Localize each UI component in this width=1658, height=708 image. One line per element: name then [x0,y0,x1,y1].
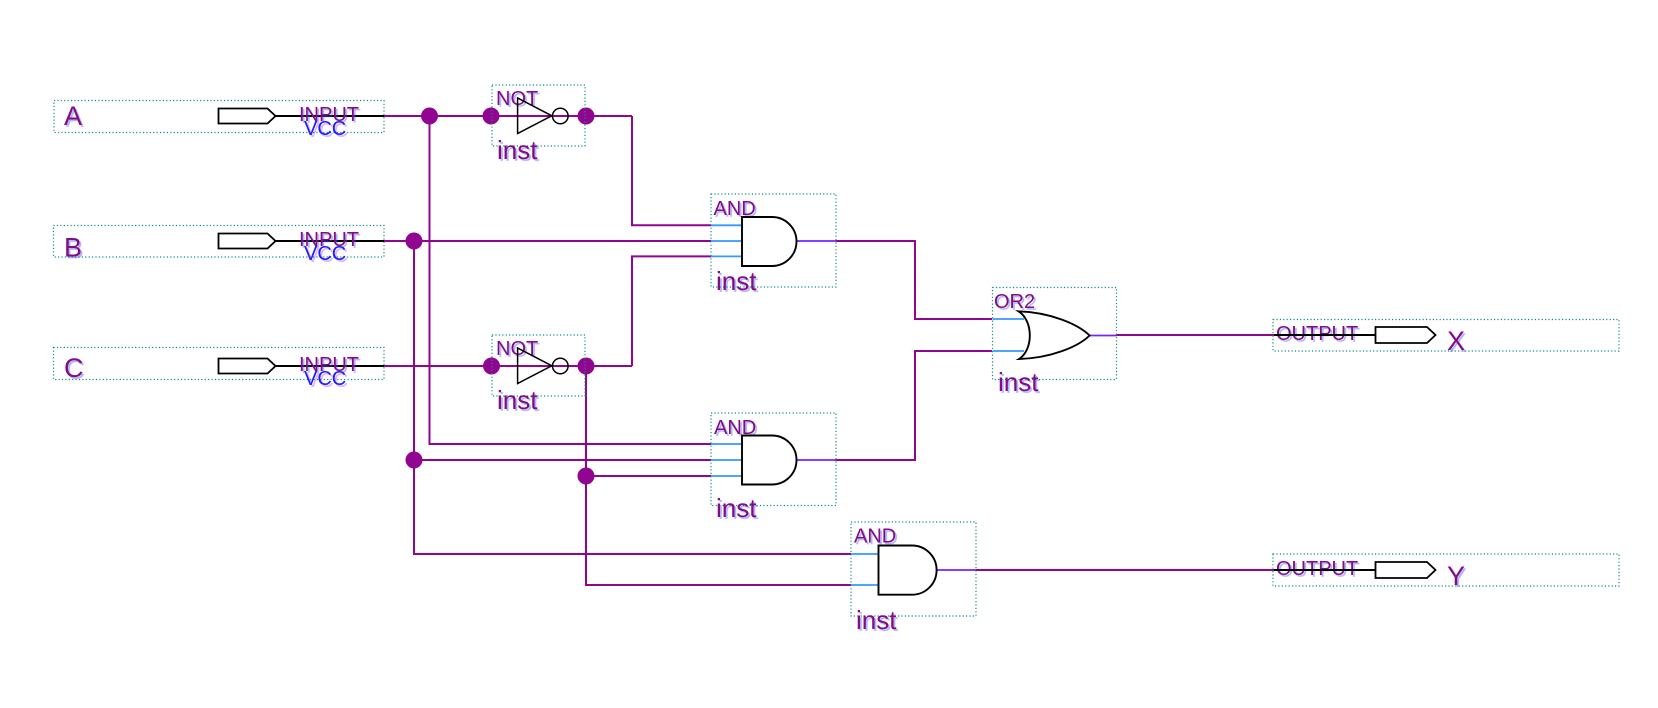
junction dot NOT1 input [483,108,500,125]
junction dot B branch 2 [406,452,423,469]
junction dot B branch [406,233,423,250]
NOT gate U1 triangle [518,98,552,134]
AND gate U5 output stub [935,569,976,571]
svg-text:A: A [64,101,82,131]
wire A row (pin A to NOT1 and bend) [384,115,632,117]
svg-text:inst: inst [716,493,757,523]
svg-text:Y: Y [1447,561,1465,591]
AND gate U3 input stub 1 [711,224,743,226]
input pin A selection box [54,101,384,133]
input pin A symbol [219,109,276,124]
wire B branch vertical [414,241,851,554]
NOT gate U1 bubble [553,108,569,124]
junction dot NOT2 output [578,358,595,375]
svg-text:inst: inst [856,605,897,635]
wire NOT1 output vertical drop [632,116,711,225]
input pin C symbol [219,359,276,374]
svg-text:B: B [64,233,82,263]
svg-text:VCC: VCC [304,368,346,390]
svg-text:inst: inst [716,266,757,296]
wire B row (pin B to AND1 input 2) [384,240,711,242]
output pin X symbol [1376,327,1436,343]
AND gate U3 input stub 3 [711,255,743,257]
AND gate U5 body [879,546,937,595]
OR gate U6 input stub 1 [993,318,1025,320]
AND gate U3 selection box [711,194,836,287]
junction dot NOT2 input [483,358,500,375]
output pin X selection box [1273,320,1619,352]
wire (B pin black segment) [276,240,385,242]
wire AND3 output to Y pin [976,569,1274,571]
AND gate U4 body [742,436,797,485]
NOT gate U2 triangle [518,348,552,384]
svg-text:C: C [64,353,84,383]
svg-text:VCC: VCC [304,118,346,140]
junction dot NOT1 output [578,108,595,125]
input pin B selection box [54,226,385,258]
AND gate U4 input stub 3 [711,475,743,477]
wire AND2 output to OR input 2 [836,351,992,460]
svg-text:AND: AND [854,526,896,548]
AND gate U5 selection box [851,522,976,616]
wire AND1 output to OR input 1 [836,241,992,319]
wire NOT2 output rise to AND1 input 3 [632,256,711,366]
AND gate U5 input stub 2 [851,584,880,586]
svg-text:X: X [1447,326,1465,356]
wire (X pin black segment) [1274,334,1376,336]
AND gate U3 output stub [795,240,836,242]
svg-text:inst: inst [998,367,1039,397]
wire (Y pin black segment) [1274,569,1376,571]
junction dot NOT2 branch 2 [578,468,595,485]
output pin Y selection box [1273,554,1619,586]
NOT gate U2 bubble [553,358,569,374]
NOT gate U1 selection box [492,85,585,146]
input pin B symbol [219,234,276,249]
wire C row (pin C to NOT2 and bend) [384,365,632,367]
output pin Y symbol [1376,562,1436,578]
junction dot A branch [421,108,438,125]
AND gate U3 body [742,217,797,266]
wire (A pin black segment) [276,115,385,117]
OR gate U6 selection box [993,288,1117,380]
AND gate U4 selection box [711,413,836,506]
wire NOT2 branch vertical [586,366,851,585]
OR gate U6 body [1019,311,1090,359]
wire (C pin black segment) [276,365,385,367]
svg-text:inst: inst [497,385,538,415]
AND gate U4 input stub 1 [711,443,743,445]
svg-text:inst: inst [497,135,538,165]
wire OR output to X pin [1116,334,1274,336]
OR gate U6 output stub [1089,335,1116,337]
wire A branch vertical [430,116,712,444]
AND gate U4 output stub [795,459,836,461]
svg-text:VCC: VCC [304,243,346,265]
svg-text:OUTPUT: OUTPUT [1276,323,1358,345]
svg-text:OR2: OR2 [994,291,1035,313]
AND gate U3 input stub 2 [711,240,743,242]
AND gate U4 input stub 2 [711,459,743,461]
wire B branch to AND2 input 2 [414,459,711,461]
svg-text:OUTPUT: OUTPUT [1276,558,1358,580]
NOT gate U2 selection box [492,335,585,396]
wire NOT2 branch to AND2 input 3 [586,475,711,477]
input pin C selection box [54,348,385,380]
AND gate U5 input stub 1 [851,553,880,555]
OR gate U6 input stub 2 [993,350,1025,352]
